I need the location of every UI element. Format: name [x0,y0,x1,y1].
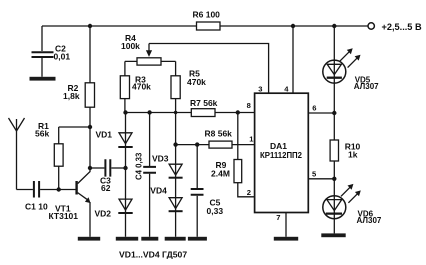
svg-text:100k: 100k [121,41,140,51]
svg-text:470k: 470k [132,82,151,92]
svg-text:1k: 1k [348,150,358,160]
svg-text:8: 8 [247,101,251,110]
svg-text:VD1...VD4 ГД507: VD1...VD4 ГД507 [119,249,187,259]
svg-text:АЛ307: АЛ307 [357,216,382,225]
svg-text:56k: 56k [35,129,49,139]
svg-text:C4 0,33: C4 0,33 [135,152,144,180]
svg-text:R7 56k: R7 56k [190,98,218,108]
svg-text:R6 100: R6 100 [193,10,221,20]
svg-text:62: 62 [101,183,111,193]
svg-text:0,33: 0,33 [207,206,224,216]
svg-text:VD3: VD3 [152,154,169,164]
svg-text:0,01: 0,01 [54,52,71,62]
svg-text:3: 3 [258,85,262,94]
svg-text:C1 10: C1 10 [25,202,48,212]
svg-text:АЛ307: АЛ307 [354,82,379,91]
svg-text:2.4M: 2.4M [211,169,230,179]
svg-text:КТ3101: КТ3101 [49,211,79,221]
svg-text:VD2: VD2 [95,209,112,219]
svg-text:6: 6 [312,104,316,113]
svg-text:R8 56k: R8 56k [205,129,233,139]
svg-text:VD4: VD4 [150,186,167,196]
svg-text:7: 7 [276,213,280,222]
svg-text:VD1: VD1 [96,130,113,140]
svg-text:DA1: DA1 [270,141,287,151]
svg-text:470k: 470k [187,77,206,87]
svg-text:2: 2 [247,188,251,197]
svg-text:КР1112ПП2: КР1112ПП2 [260,151,303,160]
svg-text:1,8k: 1,8k [63,91,80,101]
svg-text:+2,5...5 В: +2,5...5 В [382,22,422,32]
